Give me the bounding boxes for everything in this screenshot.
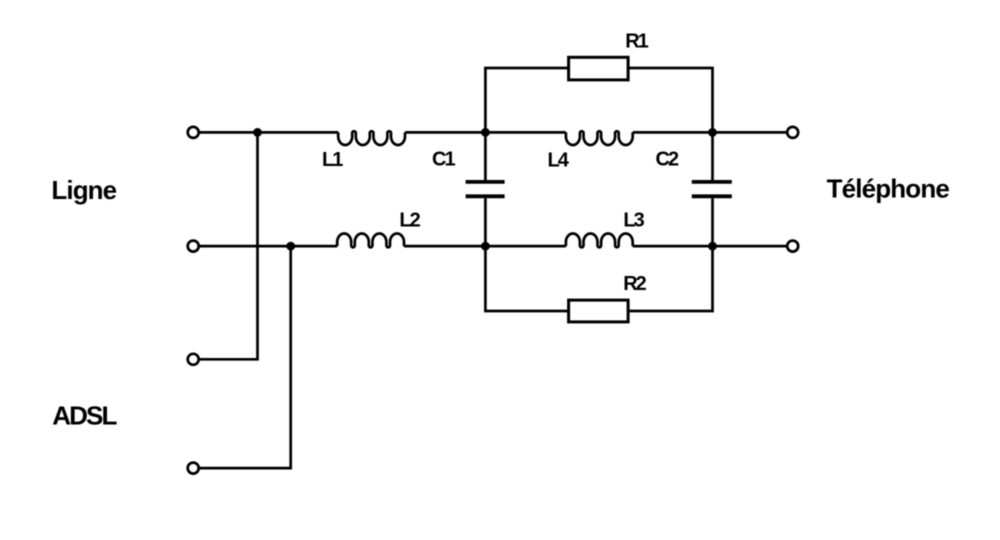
capacitor C2 lead bottom [711, 198, 714, 246]
terminal ADSL top [188, 354, 199, 365]
node D junction dot [708, 242, 717, 251]
terminal Telephone bottom [787, 241, 798, 252]
wire left vertical bus 1 [199, 132, 258, 359]
svg-text:ADSL: ADSL [52, 401, 117, 431]
svg-text:C1: C1 [432, 149, 455, 171]
svg-text:C2: C2 [656, 149, 679, 171]
inductor L4 [566, 131, 633, 145]
wire R1 branch right [629, 68, 713, 132]
wire top rail left segment [199, 131, 339, 134]
resistor R2 [569, 300, 629, 322]
terminal Telephone top [787, 127, 798, 138]
capacitor C2 lead top [711, 132, 714, 180]
svg-text:L2: L2 [399, 209, 420, 231]
junction dot bottom-left [286, 242, 295, 251]
wire bottom rail middle segment [404, 245, 566, 248]
svg-text:L4: L4 [548, 149, 570, 171]
capacitor C1 lead bottom [484, 198, 487, 246]
wire R1 branch [485, 68, 568, 132]
svg-text:R2: R2 [623, 273, 646, 295]
node C junction dot [708, 128, 717, 137]
node B junction dot [481, 242, 490, 251]
junction dot top-left [253, 128, 262, 137]
node A junction dot [481, 128, 490, 137]
capacitor C1 plates [466, 182, 505, 196]
inductor L3 [566, 234, 633, 248]
wire R2 branch right [629, 246, 713, 311]
svg-text:L3: L3 [623, 209, 644, 231]
svg-text:Téléphone: Téléphone [827, 173, 950, 203]
wire top rail middle segment [405, 131, 566, 134]
wire bottom rail right segment [633, 245, 788, 248]
svg-text:R1: R1 [625, 31, 648, 53]
resistor R1 [569, 57, 629, 80]
terminal Ligne top [188, 127, 199, 138]
svg-text:L1: L1 [322, 149, 343, 171]
wire bottom rail left segment [199, 245, 338, 248]
wire R2 branch [485, 246, 568, 311]
wire top rail right segment [633, 131, 788, 134]
inductor L1 [338, 131, 405, 145]
svg-text:Ligne: Ligne [51, 175, 116, 205]
wire left vertical bus 2 [199, 246, 291, 468]
capacitor C2 plates [692, 182, 732, 196]
terminal Ligne bottom [188, 241, 199, 252]
capacitor C1 lead top [484, 132, 487, 180]
inductor L2 [337, 234, 404, 248]
terminal ADSL bottom [188, 463, 199, 474]
